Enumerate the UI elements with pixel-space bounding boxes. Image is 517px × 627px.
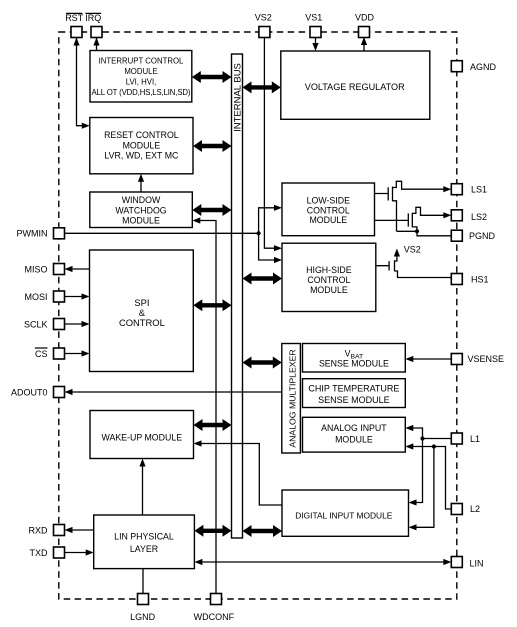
svg-text:SENSE MODULE: SENSE MODULE [319,358,389,368]
svg-text:LIN: LIN [470,558,484,568]
svg-text:HS1: HS1 [471,274,489,284]
svg-text:INTERNAL BUS: INTERNAL BUS [233,63,244,132]
svg-text:LOW-SIDE: LOW-SIDE [307,195,350,205]
svg-text:PWMIN: PWMIN [17,229,48,239]
svg-text:ANALOG MULTIPLEXER: ANALOG MULTIPLEXER [288,349,298,447]
svg-text:WINDOW: WINDOW [122,195,161,205]
svg-text:VOLTAGE REGULATOR: VOLTAGE REGULATOR [305,82,405,92]
svg-text:WAKE-UP MODULE: WAKE-UP MODULE [101,433,182,443]
svg-text:CHIP TEMPERATURE: CHIP TEMPERATURE [308,383,399,393]
svg-text:CONTROL: CONTROL [307,205,350,215]
svg-text:MODULE: MODULE [123,140,161,150]
svg-text:LS1: LS1 [471,184,487,194]
svg-text:RST: RST [65,13,84,23]
svg-text:RESET CONTROL: RESET CONTROL [104,130,179,140]
svg-text:PGND: PGND [469,231,496,241]
svg-text:L2: L2 [470,504,480,514]
svg-text:MODULE: MODULE [335,435,373,445]
svg-text:ALL OT (VDD,HS,LS,LIN,SD): ALL OT (VDD,HS,LS,LIN,SD) [92,88,191,97]
svg-text:ADOUT0: ADOUT0 [11,387,48,397]
svg-text:VSENSE: VSENSE [468,354,505,364]
svg-text:VS2: VS2 [255,13,272,23]
svg-text:ANALOG INPUT: ANALOG INPUT [321,423,387,433]
svg-text:MODULE: MODULE [309,215,347,225]
svg-text:L1: L1 [470,434,480,444]
svg-text:LVR, WD, EXT MC: LVR, WD, EXT MC [104,151,179,161]
svg-text:HIGH-SIDE: HIGH-SIDE [306,265,352,275]
svg-text:VDD: VDD [355,13,375,23]
svg-text:MISO: MISO [24,264,47,274]
svg-text:WATCHDOG: WATCHDOG [115,205,166,215]
svg-text:MODULE: MODULE [122,215,160,225]
svg-text:INTERRUPT CONTROL: INTERRUPT CONTROL [99,56,184,65]
svg-text:VS2: VS2 [404,244,421,254]
svg-text:CONTROL: CONTROL [307,275,350,285]
svg-text:MODULE: MODULE [124,67,157,76]
svg-text:LVI, HVI,: LVI, HVI, [126,77,157,86]
svg-text:SENSE MODULE: SENSE MODULE [318,395,390,405]
svg-text:LIN PHYSICAL: LIN PHYSICAL [114,532,174,542]
svg-text:LAYER: LAYER [130,544,158,554]
svg-text:CONTROL: CONTROL [119,317,165,328]
svg-text:WDCONF: WDCONF [194,612,235,622]
svg-text:LS2: LS2 [471,212,487,222]
svg-text:RXD: RXD [28,525,48,535]
svg-text:SCLK: SCLK [24,319,48,329]
svg-text:MODULE: MODULE [310,285,348,295]
svg-text:MOSI: MOSI [24,292,47,302]
svg-text:TXD: TXD [30,548,49,558]
svg-text:AGND: AGND [470,62,497,72]
svg-text:CS: CS [35,349,48,359]
svg-text:DIGITAL INPUT MODULE: DIGITAL INPUT MODULE [295,511,393,521]
svg-text:LGND: LGND [130,612,156,622]
svg-text:VS1: VS1 [305,13,322,23]
svg-text:IRQ: IRQ [85,13,101,23]
